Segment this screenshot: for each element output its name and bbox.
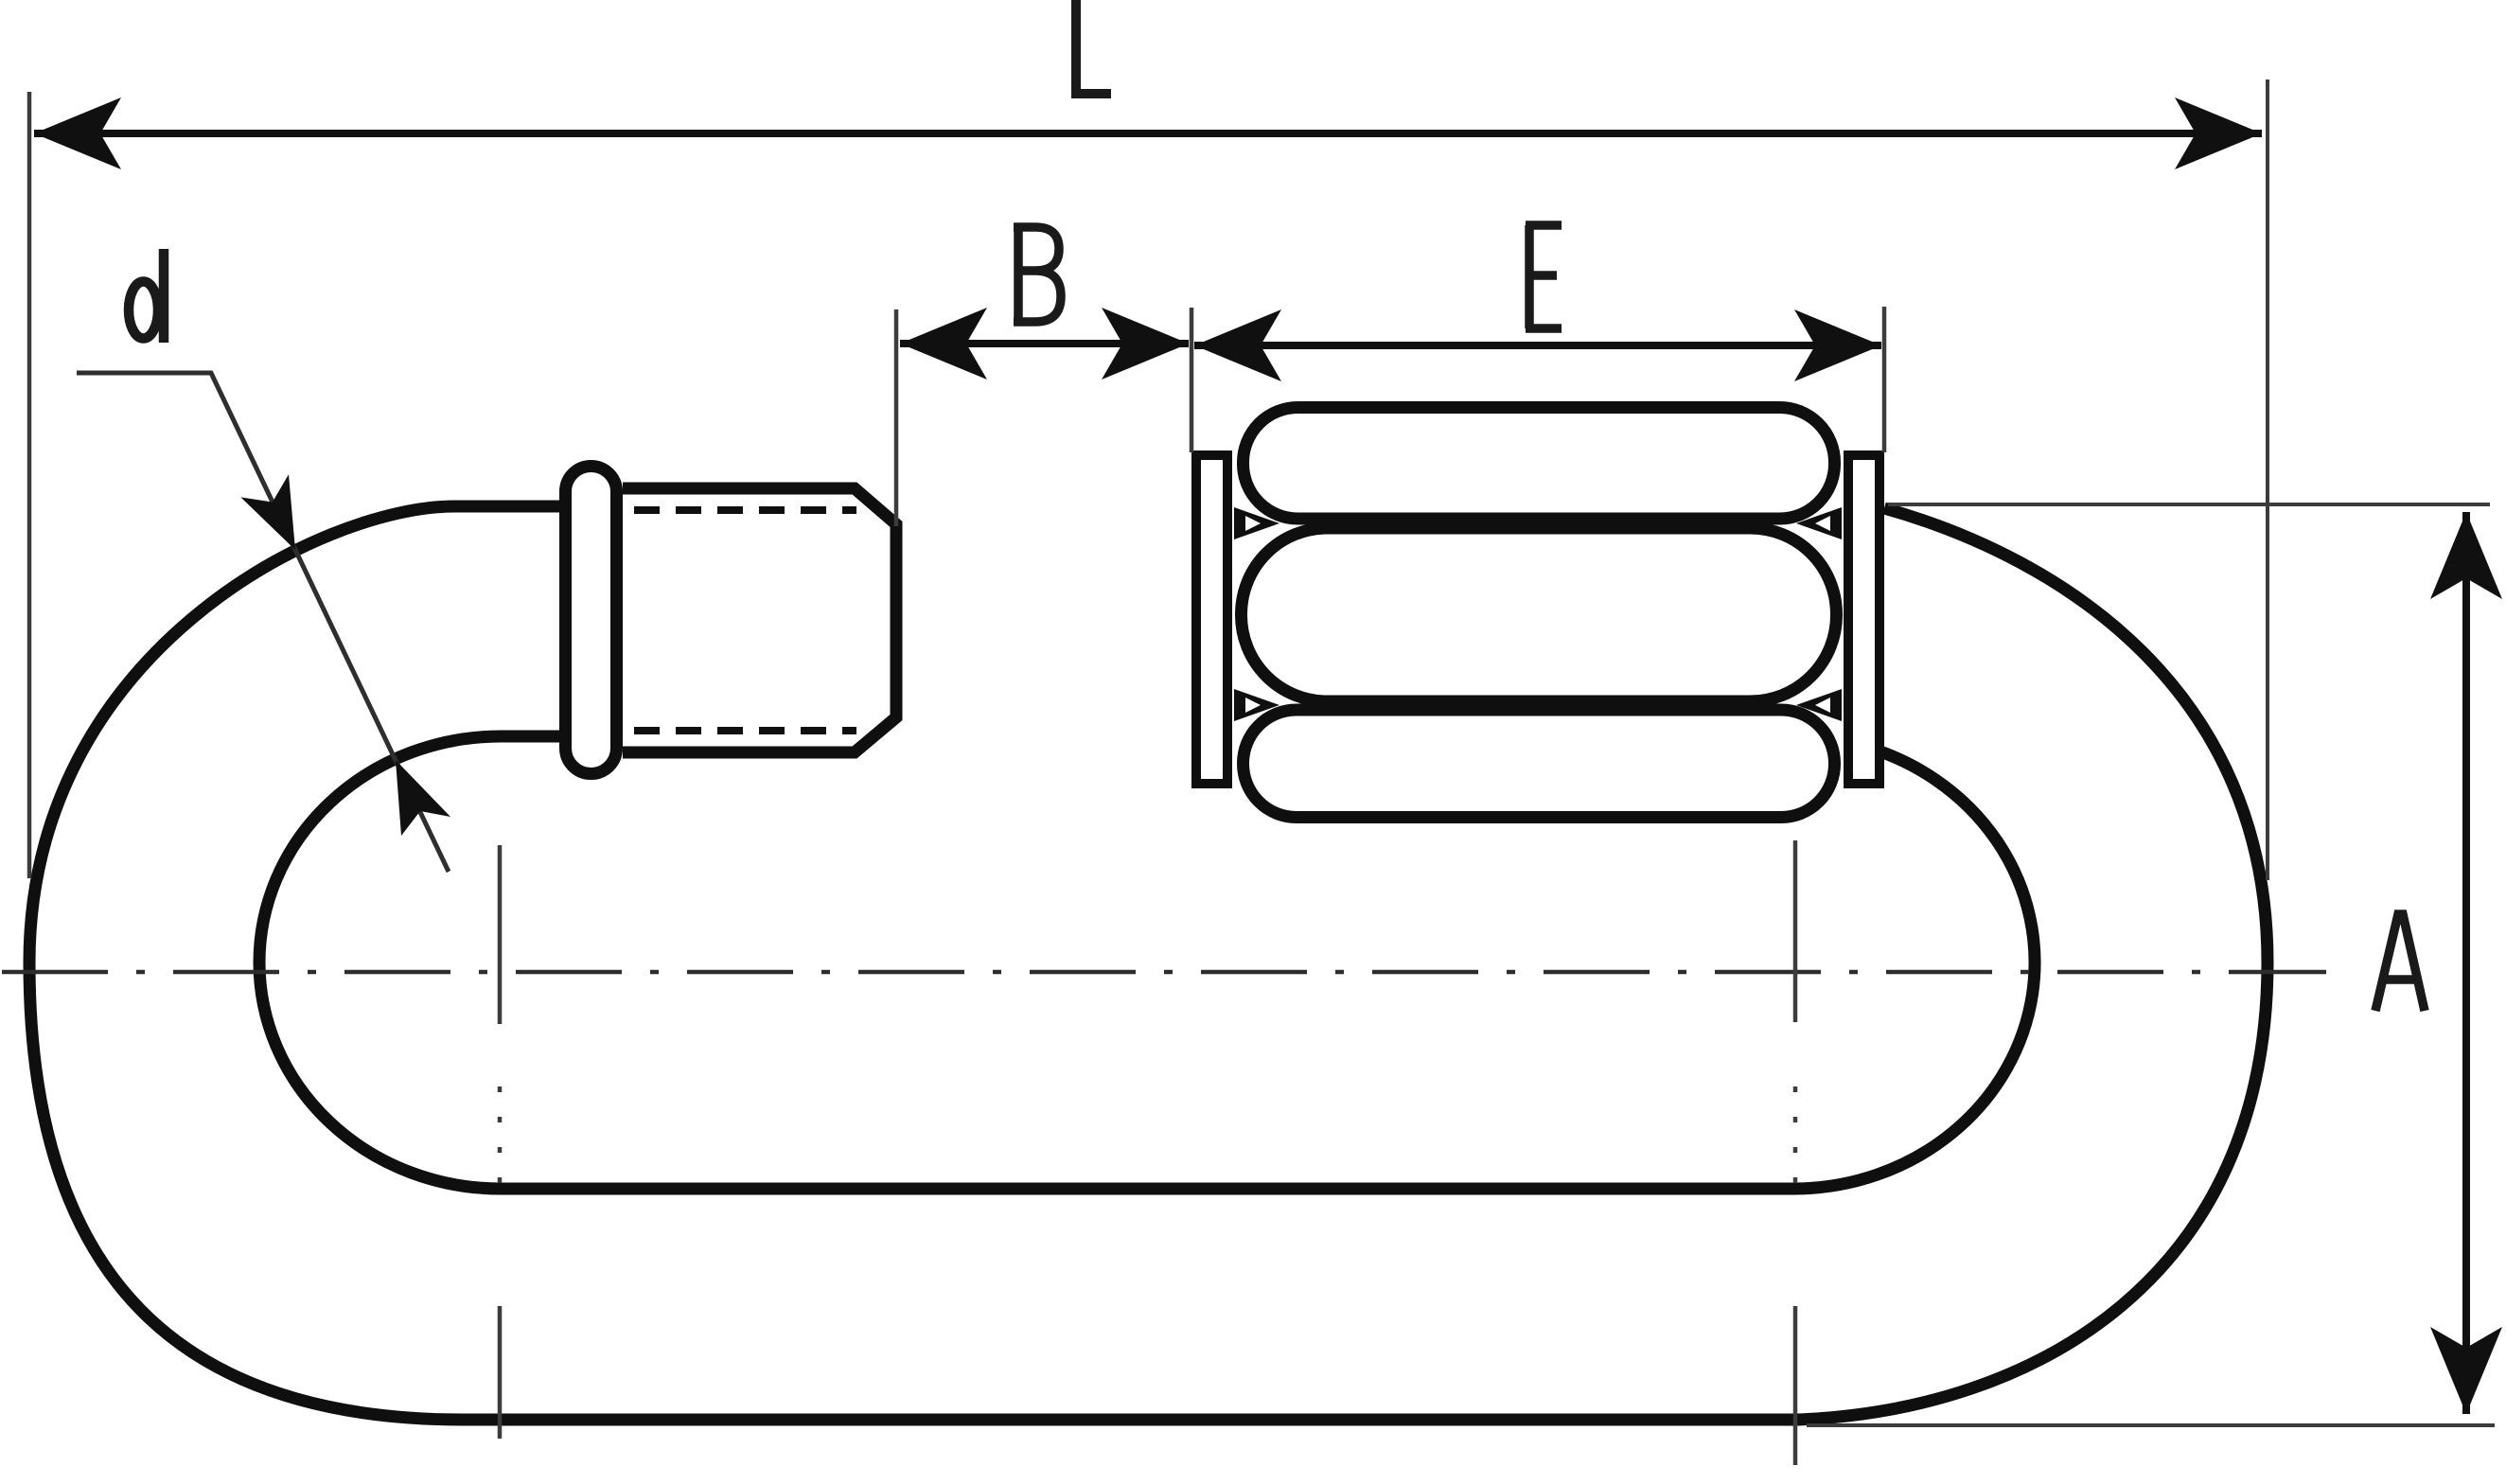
B/E shared extension line	[1190, 308, 1194, 452]
B arrow right	[1102, 308, 1189, 380]
sleeve bottom face capsule	[1244, 710, 1835, 818]
E arrow right	[1794, 309, 1881, 381]
label L	[1076, 0, 1111, 94]
label E	[1526, 225, 1562, 328]
sleeve middle face capsule	[1242, 528, 1837, 701]
sleeve right cap	[1848, 455, 1879, 784]
threaded rod with chamfered end	[623, 488, 896, 752]
L dimension extension line left	[27, 92, 32, 878]
label B	[1014, 227, 1061, 322]
center tick left upper	[498, 845, 503, 1024]
wire inner (hole) outline	[259, 736, 2035, 1189]
center tick right upper	[1793, 840, 1798, 1022]
center tick right dotted	[1793, 1086, 1798, 1183]
sleeve junction triangle right seam1	[1796, 507, 1842, 539]
d leader arrow at outer surface	[240, 474, 295, 550]
centerline horizontal (dash-dot)	[2, 970, 2326, 975]
L arrow left	[34, 97, 121, 169]
thread root dashed line bottom	[634, 727, 856, 734]
thread root dashed line top	[634, 506, 856, 514]
A dimension extension line top	[1888, 503, 2490, 506]
B arrow left	[900, 308, 987, 380]
sleeve junction triangle left seam2	[1234, 689, 1279, 721]
A arrow bottom	[2430, 1327, 2502, 1414]
sleeve junction triangle right seam2	[1796, 689, 1842, 721]
label A	[2375, 914, 2425, 1011]
sleeve junction triangle left seam1	[1234, 507, 1279, 539]
B dimension line	[900, 340, 1189, 347]
d leader line	[77, 373, 449, 872]
B dimension extension line left	[894, 309, 899, 526]
L arrow right	[2175, 97, 2262, 169]
sleeve top face capsule	[1244, 408, 1835, 520]
A dimension extension line bottom	[1807, 1423, 2495, 1427]
L dimension extension line right	[2266, 79, 2269, 880]
sleeve left cap	[1196, 455, 1227, 784]
A arrow top	[2430, 512, 2502, 599]
L dimension line	[34, 130, 2262, 137]
E dimension line	[1194, 342, 1881, 349]
extension tick right bottom	[1793, 1306, 1798, 1465]
label d	[129, 249, 164, 343]
d leader arrow at inner surface	[396, 760, 450, 836]
A dimension line	[2462, 512, 2470, 1414]
E arrow left	[1194, 309, 1281, 381]
center tick left dotted	[498, 1086, 503, 1183]
wire outer outline	[29, 506, 2268, 1420]
E dimension extension line right	[1882, 307, 1887, 452]
extension tick left bottom	[498, 1306, 503, 1439]
screw collar	[566, 467, 617, 774]
